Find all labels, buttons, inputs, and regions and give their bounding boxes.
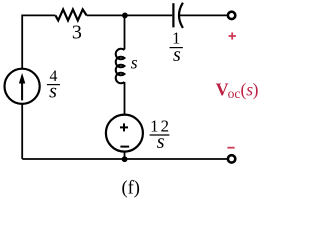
svg-text:Voc(s): Voc(s) [216,79,259,100]
wire node to inductor [124,15,126,49]
voltage source plus sign [120,123,128,131]
svg-text:s: s [49,80,57,102]
svg-text:s: s [131,53,138,73]
bottom wire [22,158,227,160]
wire capacitor to top terminal [179,14,227,16]
current source I1 circle 4/s [5,69,40,104]
wire left vertical upper [21,15,23,69]
wire inductor to voltage source [124,82,126,114]
inductor L (s) coil [116,49,125,84]
wire resistor to capacitor [87,14,173,16]
current source arrow [19,73,25,101]
voltage source V1 circle 12/s [106,115,143,152]
svg-text:s: s [157,131,165,153]
resistor R 3ohm zigzag [55,9,86,20]
terminal bottom (open circle) [228,155,235,162]
capacitor C curved plate [179,3,183,28]
svg-text:s: s [173,44,181,66]
capacitor C left plate [172,3,174,27]
capacitor value 1/s [170,29,183,66]
value label 4/s [47,68,60,103]
node dot bottom [122,156,128,162]
svg-text:(f): (f) [121,179,139,199]
red plus label [229,32,236,39]
value label 12/s [150,117,172,153]
wire voltage source to bottom [124,152,126,159]
terminal top (open circle) [228,12,235,19]
node dot top [122,13,128,19]
svg-text:3: 3 [72,22,82,44]
wire top-left horizontal [22,14,55,16]
voltage source minus sign [120,146,129,148]
red minus label [227,147,234,149]
wire left vertical lower [21,104,23,159]
